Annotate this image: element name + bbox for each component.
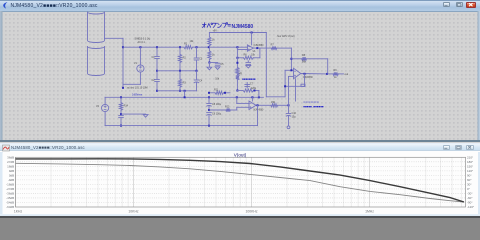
wire U3 +in from rail bbox=[236, 97, 238, 103]
wire left leg bbox=[284, 70, 286, 97]
chain x=157 bbox=[156, 47, 158, 55]
voltage source V1 SINE bbox=[137, 65, 144, 72]
resistor R13 bbox=[271, 104, 278, 107]
schematic title bbox=[203, 23, 231, 28]
node mid left bbox=[156, 70, 158, 72]
node Rf tap bbox=[290, 58, 292, 60]
wire link down bbox=[184, 91, 186, 98]
wire U2 -in bbox=[285, 69, 293, 71]
wire mid rail bbox=[157, 70, 197, 72]
wire bottom rail bbox=[157, 90, 197, 92]
node loop link bbox=[184, 96, 186, 98]
wire C7 stub bbox=[246, 83, 248, 89]
terminal circle bbox=[287, 126, 290, 129]
wire V1 bottom bbox=[139, 72, 141, 84]
node tap rail bbox=[122, 46, 124, 48]
capacitor C10 bbox=[286, 113, 291, 115]
resistor R9 bbox=[333, 72, 338, 75]
capacitor C5 bbox=[215, 62, 220, 64]
wire jog U3 -in bbox=[236, 107, 238, 110]
node bottom R3 bbox=[179, 90, 181, 92]
wire battery mid tap bbox=[105, 37, 124, 39]
wire Rf down bbox=[327, 59, 329, 74]
node VR bottom bbox=[236, 90, 238, 92]
node U2 -in bbox=[290, 69, 292, 71]
capacitor C3 bbox=[194, 57, 199, 59]
ground G2 bbox=[207, 67, 212, 70]
capacitor C1 bbox=[155, 56, 160, 58]
wire C4 top bbox=[196, 71, 198, 79]
bottom window bbox=[0, 143, 480, 216]
wire U1 out bbox=[253, 47, 271, 49]
Rf line y=58.8 bbox=[291, 58, 301, 60]
node bottom C2 bbox=[156, 90, 158, 92]
ground G4 bbox=[246, 65, 251, 68]
resistor R4 bbox=[208, 37, 211, 46]
node R11 out bbox=[224, 92, 226, 94]
resistor R10 bbox=[243, 89, 253, 92]
node loop T bbox=[284, 85, 286, 87]
node C8 C9 bbox=[208, 109, 210, 111]
capacitor C10 bbox=[288, 105, 290, 113]
resistor VR1b bbox=[236, 75, 239, 80]
ground G3 bbox=[143, 115, 148, 118]
resistor R8 feedback bbox=[302, 57, 307, 60]
capacitor C11 bbox=[119, 115, 124, 117]
wire U3 V+ pin bbox=[251, 97, 253, 101]
wire to bypass cap bbox=[209, 62, 217, 64]
node loop R10 bbox=[258, 96, 260, 98]
wire U2 +in bbox=[289, 75, 294, 77]
R10 row y=90.5 bbox=[237, 90, 243, 92]
node rail V1 bbox=[139, 46, 141, 48]
waveform window icon bbox=[3, 145, 10, 151]
node R13 out bbox=[288, 104, 290, 106]
node rail R2 bbox=[179, 46, 181, 48]
wire mid tap down bbox=[122, 38, 124, 84]
node rail divider bbox=[208, 46, 210, 48]
wire loop bottom rail bbox=[105, 125, 257, 127]
node bias mid bbox=[208, 62, 210, 64]
wire V2 bottom bbox=[104, 112, 106, 126]
resistor R1 bbox=[184, 46, 193, 49]
node VR mid bbox=[236, 62, 238, 64]
net flag common bbox=[122, 87, 124, 89]
op-amp U2 NJM4580 bbox=[294, 68, 301, 78]
capacitor C2 bbox=[155, 79, 160, 81]
wire V+ rail bbox=[209, 32, 266, 34]
node rail C1 bbox=[156, 46, 158, 48]
wire flag stub bbox=[122, 84, 124, 87]
node loop decoupling bbox=[208, 96, 210, 98]
R6 row y=57.8 bbox=[237, 57, 243, 59]
wire R3 top bbox=[179, 71, 181, 79]
resistor R12 bbox=[226, 108, 230, 111]
wire to R12 bbox=[209, 109, 226, 111]
wire to R9 bbox=[327, 73, 333, 75]
wire return rail bbox=[123, 83, 140, 85]
op-amp U1 NJM4580 bbox=[247, 45, 253, 51]
divider in loop x=121 bbox=[120, 97, 122, 102]
wire C6 stub bbox=[247, 60, 249, 63]
wire U3 out down bbox=[257, 105, 259, 125]
canvas background with grid dots bbox=[3, 12, 478, 140]
wire U1 V+ pin bbox=[251, 33, 253, 45]
resistor R14 bbox=[119, 103, 122, 111]
chain x=196.5 bbox=[196, 47, 198, 57]
wire U3 out bbox=[256, 104, 271, 106]
resistor R7 bbox=[271, 47, 277, 50]
node U2 out bbox=[304, 73, 306, 75]
node R10 out bbox=[254, 90, 256, 92]
wire signal rail bbox=[123, 46, 184, 48]
net flag on loop bbox=[301, 84, 305, 86]
button glyphs bottom window bbox=[444, 147, 447, 149]
wire U2 V- pin bbox=[295, 79, 297, 101]
resistor R6 bbox=[243, 56, 253, 59]
wire C2 top bbox=[156, 71, 158, 79]
battery B1 9V bbox=[88, 12, 105, 43]
wire U1 out down bbox=[259, 48, 261, 58]
decoupling caps x=209 bbox=[208, 97, 210, 103]
node U1 out bbox=[256, 47, 258, 49]
resistor VR1a bbox=[236, 67, 239, 74]
op-amp U3 NJM4580 bbox=[249, 101, 256, 110]
capacitor C6 bbox=[246, 61, 251, 63]
potentiometer VR1 bbox=[236, 47, 238, 67]
chain x=180 bbox=[179, 47, 181, 54]
node rail C3 bbox=[196, 46, 198, 48]
wire R10 to rail bbox=[258, 91, 260, 98]
capacitor C4 bbox=[194, 79, 199, 81]
wire vref feed bbox=[209, 92, 215, 94]
resistor R2 bbox=[178, 54, 181, 62]
node mid R2 bbox=[179, 70, 181, 72]
gain curve bbox=[16, 159, 465, 202]
node link bbox=[184, 90, 186, 92]
top window title bar bbox=[0, 0, 480, 12]
capacitor C8 bbox=[207, 103, 212, 105]
wire U2 feedback loop bbox=[304, 74, 306, 87]
node mid right bbox=[196, 70, 198, 72]
wire V1 top bbox=[139, 47, 141, 65]
node loop R14 bbox=[120, 96, 122, 98]
battery B2 9V bbox=[88, 47, 105, 76]
wire U1 +in jog bbox=[237, 49, 247, 51]
voltage source V2 bbox=[102, 104, 109, 111]
node rail VR bbox=[236, 46, 238, 48]
resistor R11 bbox=[215, 91, 224, 94]
wire U2 out bbox=[301, 73, 327, 75]
wire rail to U1 -in bbox=[193, 46, 248, 48]
phase curve bbox=[16, 163, 465, 202]
wire down to U2 -in bbox=[290, 48, 292, 70]
node bottom decoupling bbox=[208, 125, 210, 127]
wire V+ corner bbox=[266, 96, 285, 98]
node U3 out bbox=[257, 104, 259, 106]
LTspice schematic window icon bbox=[3, 2, 7, 9]
capacitor C7 bbox=[245, 84, 250, 86]
capacitor C9 bbox=[207, 112, 212, 114]
wire up to U2 +in bbox=[288, 76, 290, 105]
node out junction bbox=[326, 73, 328, 75]
node VR R6 bbox=[236, 57, 238, 59]
node V+ U1 bbox=[251, 32, 253, 34]
node R14 C11 bbox=[120, 113, 122, 115]
wire loop top rail bbox=[105, 96, 263, 98]
bias divider x=209.4 bbox=[208, 33, 210, 38]
node loop U3+ bbox=[236, 96, 238, 98]
button glyphs top window bbox=[445, 5, 448, 7]
wire R7 out bbox=[277, 47, 292, 49]
ground G1 bbox=[215, 67, 220, 70]
wire gnd stub bbox=[121, 113, 146, 115]
wire V+ drop bbox=[265, 33, 267, 97]
node loop U3 V+ bbox=[251, 96, 253, 98]
resistor R5 bbox=[208, 51, 211, 60]
resistor R3 bbox=[178, 79, 181, 87]
wire V2 top bbox=[104, 97, 106, 104]
